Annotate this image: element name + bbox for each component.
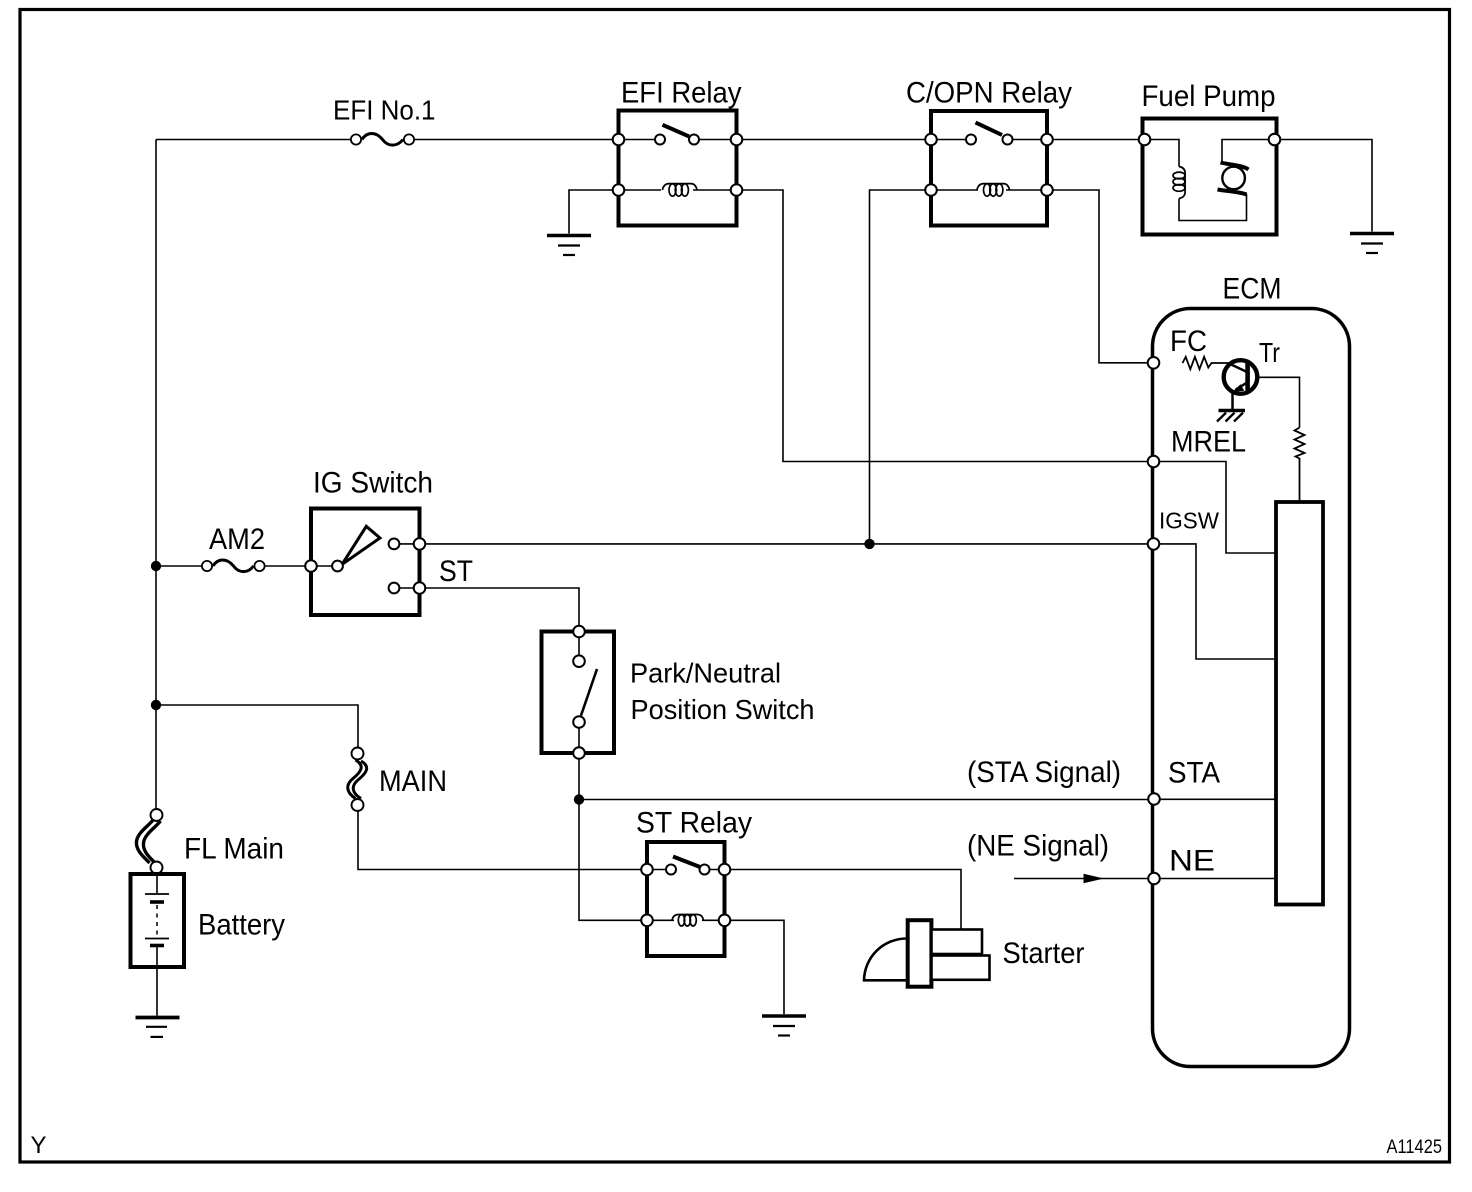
wire: FC net from C/OPN coil to ECM FC pin: [1047, 190, 1154, 363]
ground: EFI relay coil ground: [547, 236, 591, 256]
battery: [131, 874, 286, 967]
pin NE: [1148, 845, 1215, 885]
svg-text:EFI Relay: EFI Relay: [621, 77, 742, 110]
ground: transistor emitter internal ground: [1217, 411, 1245, 422]
switch blade: [976, 123, 1003, 136]
wire: fuel pump internal right branch: [1222, 140, 1275, 162]
switch blade: [663, 125, 690, 137]
svg-text:Battery: Battery: [198, 909, 285, 942]
svg-text:Starter: Starter: [1003, 937, 1085, 970]
wire: AM2 branch from bus: [156, 565, 207, 567]
wire: EFI No.1 fuse to EFI relay: [409, 139, 619, 141]
svg-text:ECM: ECM: [1223, 273, 1282, 306]
wire: C/OPN coil left terminal down to IGSW net: [870, 190, 932, 544]
svg-text:Tr: Tr: [1259, 337, 1280, 368]
coil C/OPN relay: [977, 184, 1010, 190]
svg-text:NE: NE: [1169, 845, 1215, 878]
wire: ST relay coil to ground: [725, 920, 785, 1014]
park/neutral position switch: [542, 626, 815, 759]
wire: EFI relay coil to ground: [569, 190, 619, 234]
IG switch blade wedge: [342, 526, 380, 564]
node: junction bus/AM2: [151, 561, 161, 571]
wire: MAIN fuse to ST relay switch: [358, 811, 647, 870]
wire: battery negative to ground: [156, 967, 158, 1016]
resistor collector pull: [1295, 428, 1305, 503]
wire: MAIN branch from bus: [156, 705, 358, 748]
motor fuel pump: [1222, 167, 1245, 190]
terminals: [613, 134, 625, 146]
wire: fuel pump to right ground: [1275, 140, 1373, 232]
svg-text:Fuel Pump: Fuel Pump: [1142, 80, 1276, 113]
svg-text:ST: ST: [439, 555, 473, 588]
fuse AM2: [202, 523, 265, 572]
starter: [864, 920, 1085, 987]
wire: park/neutral switch to STA junction and ST relay coil: [579, 760, 647, 921]
ground: right of fuel pump: [1350, 234, 1394, 254]
svg-text:MREL: MREL: [1171, 426, 1246, 459]
coil EFI relay: [662, 184, 697, 190]
resistor FC input: [1183, 357, 1232, 369]
svg-text:ST Relay: ST Relay: [636, 807, 752, 840]
pin FC: [1148, 325, 1207, 369]
wire: fuel pump internal left branch: [1145, 140, 1180, 167]
wire: ST net IG switch to park/neutral switch: [420, 588, 580, 625]
ECM logic bar: [1276, 502, 1323, 905]
wire: STA signal to ECM STA pin: [579, 799, 1154, 801]
ground: battery ground: [136, 1018, 180, 1037]
node: junction bus/MAIN: [151, 700, 161, 710]
wire: AM2 fuse to IG switch: [260, 565, 312, 567]
svg-text:(STA Signal): (STA Signal): [967, 756, 1121, 789]
wire: EFI relay to C/OPN relay: [737, 139, 932, 141]
node: junction STA signal: [574, 794, 584, 804]
IG switch: [305, 467, 473, 616]
svg-text:Position Switch: Position Switch: [631, 694, 815, 725]
svg-text:IGSW: IGSW: [1159, 508, 1219, 534]
terminals: [1139, 134, 1151, 146]
wire: IGSW internal: [1160, 544, 1276, 659]
NE signal arrowhead: [1084, 874, 1105, 884]
svg-text:STA: STA: [1168, 757, 1220, 790]
ground: ST relay coil ground: [762, 1016, 806, 1036]
svg-text:FC: FC: [1170, 325, 1207, 358]
wire: ST relay switch to starter: [725, 870, 962, 930]
wire: battery bus vertical: [155, 140, 157, 810]
wire: fuel pump internal bottom: [1179, 194, 1247, 221]
starter terminal box lower: [932, 956, 990, 980]
wire: NE signal arrow line to ECM NE pin: [1014, 878, 1154, 880]
svg-text:Park/Neutral: Park/Neutral: [630, 658, 781, 689]
starter motor body arc: [864, 938, 909, 980]
pin STA: [1148, 757, 1220, 805]
coil fuel pump: [1179, 167, 1185, 199]
svg-text:EFI No.1: EFI No.1: [333, 95, 436, 126]
svg-text:Y: Y: [31, 1132, 47, 1159]
starter solenoid: [908, 920, 932, 987]
wire: MREL net from EFI relay coil to ECM MREL pin: [737, 190, 1154, 462]
svg-text:C/OPN Relay: C/OPN Relay: [906, 77, 1072, 110]
terminals: [925, 134, 937, 146]
fuse MAIN: [348, 748, 447, 812]
ECM outline: [1153, 273, 1350, 1067]
pin MREL: [1148, 426, 1246, 468]
wire: NE internal: [1161, 878, 1277, 880]
svg-text:MAIN: MAIN: [379, 765, 447, 798]
svg-text:IG Switch: IG Switch: [313, 467, 433, 500]
svg-text:A11425: A11425: [1387, 1137, 1443, 1158]
fusible link FL Main: [136, 809, 284, 874]
wire: STA internal: [1161, 798, 1277, 800]
wire: C/OPN relay to fuel pump: [1047, 139, 1145, 141]
svg-text:AM2: AM2: [209, 523, 265, 556]
wire: top feed from bus to EFI No.1 fuse: [156, 139, 356, 141]
fuse EFI No.1: [333, 95, 436, 146]
coil ST relay: [672, 915, 704, 921]
node: junction C/OPN coil on IGSW net: [864, 539, 874, 549]
pin IGSW: [1148, 508, 1220, 550]
relay EFI Relay: [613, 77, 743, 226]
svg-text:FL Main: FL Main: [184, 833, 284, 866]
wire: MREL internal: [1160, 462, 1276, 554]
fuel pump: [1139, 80, 1281, 235]
wire: collector net with resistor to ECM bar: [1250, 377, 1300, 427]
relay C/OPN Relay: [906, 77, 1072, 226]
wire: IGSW net from IG switch to ECM IGSW pin: [420, 543, 1154, 545]
relay ST Relay: [636, 807, 752, 957]
transistor Tr: [1224, 337, 1280, 409]
switch blade: [673, 857, 700, 868]
starter terminal box upper: [932, 930, 983, 955]
svg-text:(NE Signal): (NE Signal): [967, 830, 1109, 863]
